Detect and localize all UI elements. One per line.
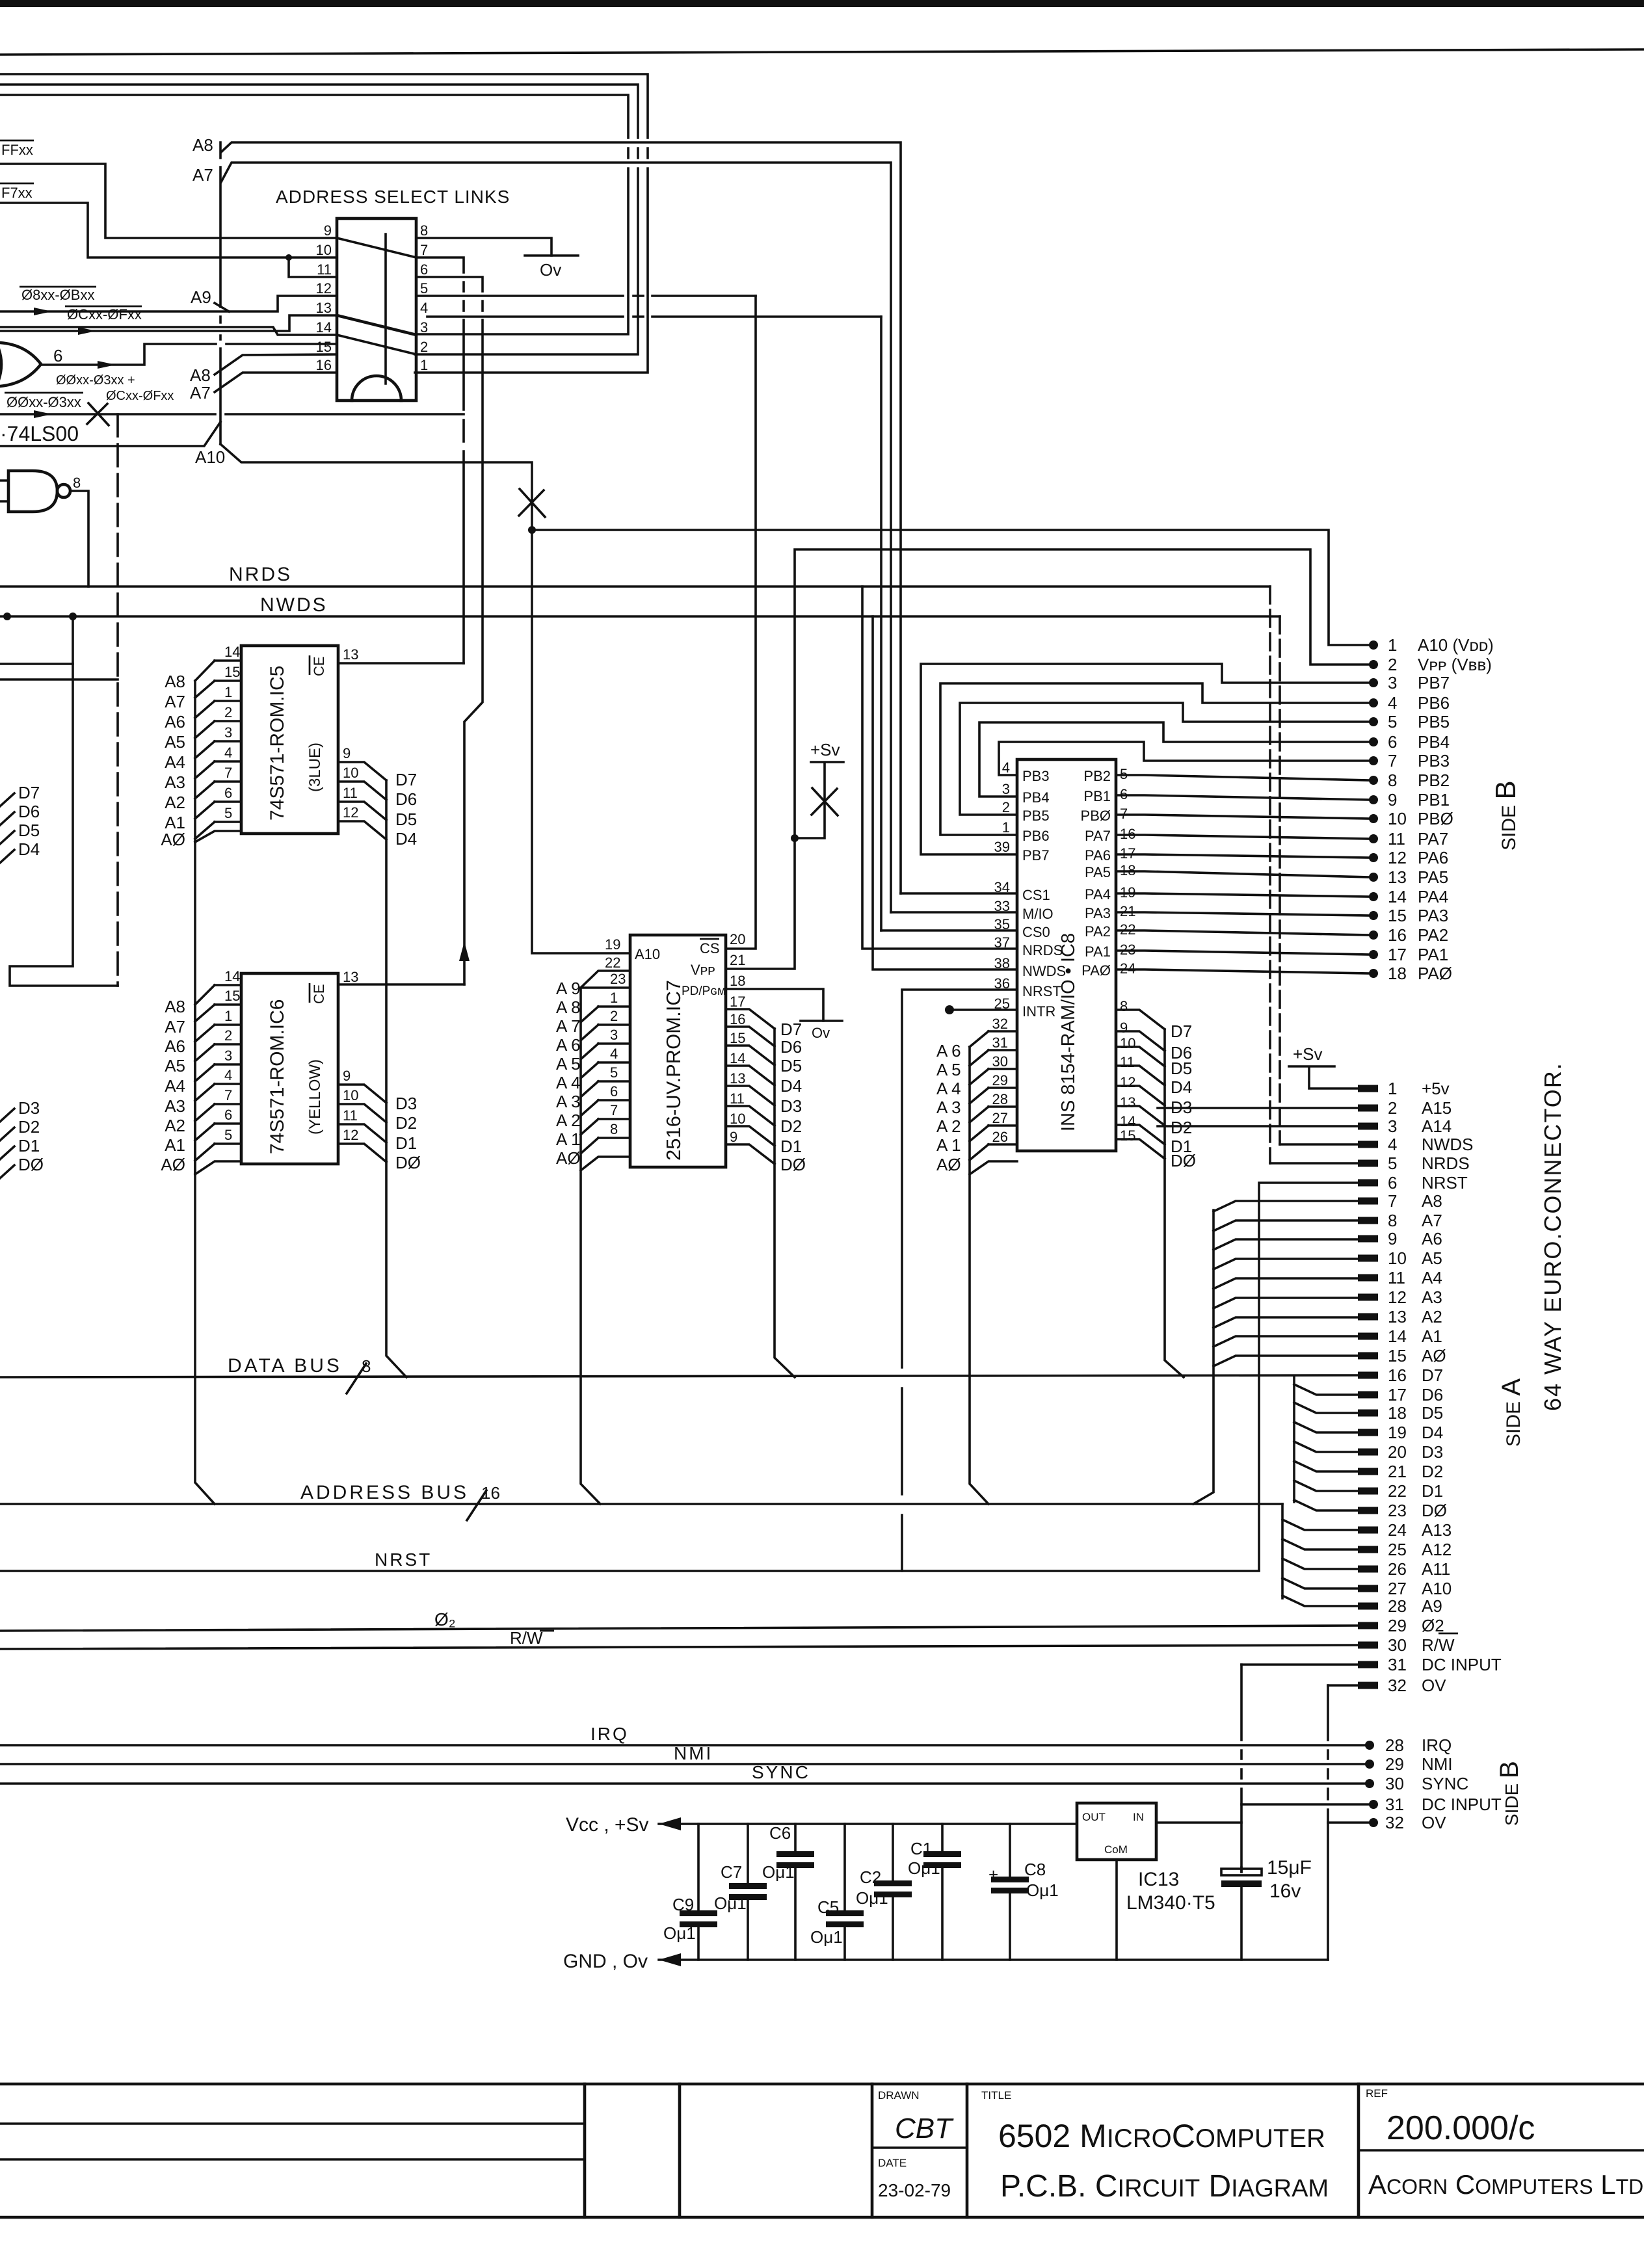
svg-text:3: 3 <box>1388 1116 1397 1136</box>
svg-text:Oμ1: Oμ1 <box>663 1923 696 1943</box>
wire IC5 pin7 diag <box>195 782 215 798</box>
svg-text:FFxx: FFxx <box>1 142 33 158</box>
svg-text:A 2: A 2 <box>556 1111 581 1130</box>
capacitor C5 <box>843 1824 846 1960</box>
svg-text:A10: A10 <box>1422 1579 1452 1598</box>
pin NAND inputs <box>0 481 8 501</box>
wire pin14 feed from left <box>0 327 337 335</box>
wire IC8 pin27 diag <box>970 1126 988 1141</box>
svg-text:22: 22 <box>605 955 620 971</box>
svg-text:D7: D7 <box>780 1020 802 1039</box>
svg-text:TITLE: TITLE <box>981 2089 1011 2102</box>
svg-text:16: 16 <box>730 1011 745 1027</box>
pin A19 D4 <box>1358 1429 1378 1436</box>
wire IC8 pin26 diag <box>970 1144 988 1160</box>
wire D3 fan to pin <box>1294 1442 1358 1452</box>
svg-text:13: 13 <box>1388 1307 1407 1326</box>
svg-text:16: 16 <box>316 357 332 373</box>
svg-text:1: 1 <box>224 1008 232 1024</box>
svg-text:DC INPUT: DC INPUT <box>1422 1795 1502 1814</box>
wire A12 fan to pin <box>1282 1539 1358 1549</box>
svg-text:·74LS00: ·74LS00 <box>0 422 79 445</box>
svg-text:Vᴘᴘ (Vʙʙ): Vᴘᴘ (Vʙʙ) <box>1418 655 1492 674</box>
pin A5 NRDS <box>1358 1160 1378 1167</box>
svg-text:D1: D1 <box>1422 1481 1443 1501</box>
svg-text:30: 30 <box>1388 1635 1407 1655</box>
svg-text:Vᴘᴘ: Vᴘᴘ <box>691 962 715 978</box>
capacitor C6 <box>794 1824 797 1960</box>
svg-text:DØ: DØ <box>780 1155 806 1174</box>
svg-text:18: 18 <box>1388 964 1407 983</box>
svg-text:INTR: INTR <box>1022 1003 1055 1020</box>
svg-text:D5: D5 <box>1171 1059 1192 1078</box>
svg-text:C2: C2 <box>860 1867 881 1887</box>
wire left stub b <box>0 678 118 681</box>
pin B6 PB4 <box>1369 737 1378 746</box>
svg-text:NWDS: NWDS <box>1422 1135 1473 1154</box>
svg-text:8: 8 <box>420 222 428 239</box>
svg-text:IRQ: IRQ <box>1422 1735 1452 1755</box>
svg-text:12: 12 <box>1388 848 1407 867</box>
link 13-3 <box>337 315 416 335</box>
wire A8 fan to pin <box>1213 1201 1358 1211</box>
wire IC5 pin5 diag <box>195 822 215 839</box>
wire IC8 PA2 to side B <box>1116 930 1370 935</box>
svg-text:PAØ: PAØ <box>1081 962 1111 979</box>
border drawn/date divider <box>872 2146 967 2149</box>
svg-text:3: 3 <box>1002 781 1010 797</box>
svg-text:9: 9 <box>730 1129 737 1145</box>
pin A14 A1 <box>1358 1333 1378 1340</box>
IC IC13 LM340-T5 body <box>1077 1803 1156 1860</box>
svg-text:14: 14 <box>1388 1326 1407 1346</box>
svg-text:2: 2 <box>1002 799 1010 815</box>
svg-text:D5: D5 <box>1422 1403 1443 1423</box>
svg-text:26: 26 <box>992 1129 1008 1145</box>
wire IC7 pin1 diag <box>581 1007 598 1022</box>
wire IC5 pin4 diag <box>195 761 215 778</box>
svg-text:DATE: DATE <box>878 2157 907 2169</box>
ground 0V (IC7) <box>801 1020 842 1022</box>
capacitor C9 <box>697 1824 700 1960</box>
svg-text:PA6: PA6 <box>1085 847 1111 864</box>
svg-text:M/IO: M/IO <box>1022 906 1054 922</box>
svg-text:13: 13 <box>343 969 358 985</box>
svg-text:ADDRESS SELECT LINKS: ADDRESS SELECT LINKS <box>276 187 510 207</box>
svg-text:2516-UV.PROM.IC7: 2516-UV.PROM.IC7 <box>662 980 685 1161</box>
wire IC8 PB4 to side B <box>979 722 1370 797</box>
wire IC6 pin14 diag <box>195 985 215 1005</box>
border inner line 2 <box>0 2158 585 2161</box>
svg-text:28: 28 <box>1388 1596 1407 1616</box>
svg-text:5: 5 <box>420 280 428 297</box>
border title block top <box>0 2083 1644 2086</box>
svg-text:PBØ: PBØ <box>1418 809 1453 828</box>
node D2 left-edge stub <box>0 1127 14 1141</box>
wire IC6 pin6 diag <box>195 1124 215 1141</box>
border inner line 1 <box>0 2122 585 2125</box>
wire A1 fan to pin <box>1213 1336 1358 1347</box>
svg-text:D7: D7 <box>395 770 417 789</box>
svg-text:2: 2 <box>1388 1098 1397 1118</box>
pin B5 PB5 <box>1369 717 1378 726</box>
svg-text:200.000/c: 200.000/c <box>1386 2109 1535 2147</box>
wire phi2 line <box>0 1626 1358 1631</box>
wire IC8 pin28 diag <box>970 1107 988 1122</box>
wire IC5 pin1 diag <box>195 701 215 718</box>
wire ADDRESS BUS <box>0 1503 1282 1505</box>
svg-text:R/W: R/W <box>1422 1635 1455 1655</box>
pin B14 PA4 <box>1369 892 1378 901</box>
svg-text:PB7: PB7 <box>1418 673 1450 692</box>
svg-text:10: 10 <box>343 1087 358 1103</box>
wire M-IO select line <box>221 163 891 912</box>
wire IC5 pin6 diag <box>195 802 215 819</box>
svg-text:29: 29 <box>1388 1616 1407 1635</box>
wire IC6 A0 entry <box>195 1161 241 1174</box>
svg-text:IC13: IC13 <box>1138 1869 1179 1890</box>
svg-text:7: 7 <box>224 1087 232 1103</box>
svg-text:PA5: PA5 <box>1085 864 1111 880</box>
svg-text:A2: A2 <box>1422 1307 1442 1326</box>
svg-text:15: 15 <box>730 1030 745 1046</box>
link 9-7 <box>337 238 416 257</box>
wire IC8 PA7 to side B <box>1116 835 1370 839</box>
svg-text:PB2: PB2 <box>1418 771 1450 790</box>
svg-text:11: 11 <box>1388 829 1405 849</box>
pin B1 A10 (Vᴅᴅ) <box>1369 640 1378 650</box>
wire IRQ line <box>0 1744 1370 1747</box>
svg-text:14: 14 <box>730 1050 745 1066</box>
wire IC8 A0 entry <box>970 1161 1017 1174</box>
svg-text:Oμ1: Oμ1 <box>762 1862 795 1882</box>
svg-text:9: 9 <box>1120 1020 1128 1036</box>
wire NWDS <box>0 615 1280 618</box>
pin A11 A4 <box>1358 1274 1378 1282</box>
svg-text:22: 22 <box>1388 1481 1407 1501</box>
svg-text:Ø8xx-ØBxx: Ø8xx-ØBxx <box>21 287 94 303</box>
node bus width 8 <box>347 1364 366 1393</box>
wire GND rail <box>659 1958 1328 1961</box>
pin B11 PA7 <box>1369 834 1378 843</box>
wire CS1 stub <box>901 892 1017 895</box>
svg-text:AØ: AØ <box>556 1148 581 1168</box>
svg-text:13: 13 <box>1120 1094 1135 1111</box>
pin A2 A15 <box>1358 1105 1378 1112</box>
wire IC8 PA4 to side B <box>1116 893 1370 897</box>
wire IN to DC input <box>1156 1821 1241 1824</box>
node D1 left-edge stub <box>0 1146 14 1159</box>
svg-text:PAØ: PAØ <box>1418 964 1452 983</box>
wire IC6 pin2 diag <box>195 1044 215 1061</box>
svg-text:23-02-79: 23-02-79 <box>878 2180 951 2200</box>
svg-text:74S571-ROM.IC5: 74S571-ROM.IC5 <box>267 666 288 821</box>
svg-text:PA7: PA7 <box>1085 828 1111 844</box>
svg-text:A 9: A 9 <box>556 979 581 998</box>
svg-text:9: 9 <box>343 1068 351 1084</box>
svg-text:74S571-ROM.IC6: 74S571-ROM.IC6 <box>267 999 288 1154</box>
pin A8 A7 <box>1358 1217 1378 1224</box>
svg-text:F7xx: F7xx <box>1 185 33 201</box>
node junction A10/side-B <box>528 526 536 534</box>
svg-text:D3: D3 <box>18 1098 40 1118</box>
wire IC7 pin22 <box>581 971 630 988</box>
svg-text:D3: D3 <box>1422 1442 1443 1462</box>
svg-text:6: 6 <box>224 785 232 801</box>
wire select vertical 339 <box>219 142 222 444</box>
svg-text:A 4: A 4 <box>936 1079 961 1098</box>
svg-text:4: 4 <box>610 1046 618 1062</box>
wire IC8 PBØ to side B <box>1116 815 1370 819</box>
wire lower select line <box>0 422 220 446</box>
svg-text:D2: D2 <box>780 1116 802 1136</box>
connector J1 inner bar <box>384 234 387 384</box>
node R/W overline <box>1438 1633 1458 1635</box>
svg-text:A 5: A 5 <box>936 1060 961 1079</box>
svg-text:DC INPUT: DC INPUT <box>1422 1655 1502 1674</box>
wire IC7 pin8 diag <box>581 1138 598 1154</box>
svg-text:15: 15 <box>1388 1346 1407 1365</box>
node X mark (cut) <box>87 403 109 425</box>
wire links pin6 to IC6 CE <box>416 277 483 984</box>
wire D6 fan to pin <box>1294 1384 1358 1395</box>
svg-text:A7: A7 <box>192 165 213 185</box>
svg-text:A8: A8 <box>190 365 211 385</box>
wire OV A32 feed <box>1328 1684 1358 1687</box>
svg-text:NRST: NRST <box>1422 1173 1468 1193</box>
svg-text:18: 18 <box>1388 1403 1407 1423</box>
wire IC8 PB6 to side B <box>940 683 1370 835</box>
svg-text:A1: A1 <box>1422 1326 1442 1346</box>
border v5 <box>1357 2084 1360 2217</box>
svg-text:+Sv: +Sv <box>810 740 840 759</box>
svg-text:17: 17 <box>1388 945 1407 964</box>
svg-text:31: 31 <box>1388 1655 1407 1674</box>
wire IC8 PB1 to side B <box>1116 795 1370 800</box>
svg-text:AØ: AØ <box>161 830 185 849</box>
node D3 left-edge stub <box>0 1109 14 1122</box>
wire D0 fan to pin <box>1294 1500 1358 1510</box>
svg-text:DØ: DØ <box>1422 1501 1447 1520</box>
svg-text:4: 4 <box>224 1067 232 1083</box>
wire A7 feed to pin16 <box>215 373 337 392</box>
wire IC8 pin31 diag <box>970 1050 988 1066</box>
wire A4 fan to pin <box>1213 1278 1358 1289</box>
pin A3 A14 <box>1358 1123 1378 1130</box>
border v4 <box>966 2084 969 2217</box>
svg-text:15μF: 15μF <box>1267 1857 1312 1879</box>
svg-text:A1: A1 <box>165 1135 185 1155</box>
svg-text:1: 1 <box>224 684 232 700</box>
svg-text:D4: D4 <box>1171 1077 1192 1097</box>
svg-text:12: 12 <box>316 280 332 297</box>
node DØ left-edge stub <box>0 1165 14 1178</box>
wire IC8 PB2 to side B <box>1116 775 1370 780</box>
svg-text:REF: REF <box>1366 2087 1388 2100</box>
svg-text:6: 6 <box>420 261 428 278</box>
wire to links pin 11 <box>289 257 337 277</box>
svg-text:7: 7 <box>1388 1191 1397 1211</box>
svg-text:3: 3 <box>224 724 232 741</box>
svg-text:NRDS: NRDS <box>229 564 292 585</box>
wire A13 fan to pin <box>1282 1520 1358 1530</box>
wire A11 fan to pin <box>1282 1559 1358 1569</box>
svg-text:AØ: AØ <box>936 1155 961 1174</box>
svg-text:DRAWN: DRAWN <box>878 2089 920 2102</box>
svg-text:PBØ: PBØ <box>1081 808 1111 824</box>
svg-text:4: 4 <box>224 745 232 761</box>
ground 0V (links) <box>525 254 578 257</box>
svg-text:Ov: Ov <box>540 260 561 280</box>
svg-text:C9: C9 <box>672 1895 694 1914</box>
svg-text:(3LUE): (3LUE) <box>306 743 324 792</box>
wire COM to GND <box>1115 1860 1118 1960</box>
svg-text:8: 8 <box>362 1356 371 1376</box>
pin A16 D7 <box>1358 1372 1378 1379</box>
svg-text:IRQ: IRQ <box>590 1724 629 1744</box>
node bus width 16 <box>467 1490 486 1520</box>
svg-text:12: 12 <box>343 1127 358 1143</box>
wire IC8 PB5 to side B <box>960 703 1370 815</box>
node junction Vpp/+5v <box>791 834 799 842</box>
pin A31 DC INPUT <box>1358 1661 1378 1668</box>
svg-text:29: 29 <box>1385 1754 1404 1774</box>
svg-text:12: 12 <box>1388 1287 1407 1307</box>
pin A27 A10 <box>1358 1585 1378 1592</box>
svg-text:PB3: PB3 <box>1022 768 1050 784</box>
pin B18 PAØ <box>1369 969 1378 978</box>
pin A18 D5 <box>1358 1410 1378 1417</box>
svg-text:CS: CS <box>700 940 720 956</box>
svg-text:C6: C6 <box>769 1823 791 1843</box>
svg-text:16: 16 <box>481 1483 500 1503</box>
wire CS1 select line <box>221 142 901 893</box>
svg-text:A13: A13 <box>1422 1520 1452 1540</box>
wire data bus vertical (ROMs) <box>386 780 406 1377</box>
wire NWDS branch to IC8 <box>873 616 1017 969</box>
pin A23 DØ <box>1358 1507 1378 1514</box>
svg-text:D4: D4 <box>1422 1423 1443 1442</box>
pin A12 A3 <box>1358 1294 1378 1301</box>
wire IC8 PAØ to side B <box>1116 969 1370 973</box>
wire IC6 pin4 diag <box>195 1084 215 1101</box>
wire IC5 pin15 diag <box>195 681 215 698</box>
svg-text:1: 1 <box>610 990 618 1006</box>
wire IC6 pin5 diag <box>195 1144 215 1161</box>
svg-text:D2: D2 <box>18 1117 40 1137</box>
svg-text:A14: A14 <box>1422 1116 1452 1136</box>
svg-text:D5: D5 <box>780 1056 802 1075</box>
svg-text:8: 8 <box>1388 771 1397 790</box>
svg-text:16v: 16v <box>1269 1880 1301 1902</box>
svg-text:A7: A7 <box>165 692 185 711</box>
svg-text:A8: A8 <box>192 135 213 155</box>
svg-text:A 6: A 6 <box>556 1035 581 1055</box>
svg-text:PB4: PB4 <box>1418 732 1450 752</box>
svg-text:Vᴄᴄ , +Sv: Vᴄᴄ , +Sv <box>566 1814 649 1836</box>
svg-text:9: 9 <box>343 745 351 761</box>
svg-text:A 1: A 1 <box>556 1129 581 1149</box>
svg-text:OV: OV <box>1422 1676 1446 1695</box>
wire A14 feed <box>1158 1125 1358 1127</box>
svg-text:PB3: PB3 <box>1418 751 1450 771</box>
svg-text:CE: CE <box>311 984 327 1004</box>
svg-text:OUT: OUT <box>1082 1811 1106 1823</box>
node D6 left-edge stub <box>0 812 14 825</box>
svg-text:21: 21 <box>730 952 745 968</box>
svg-text:9: 9 <box>1388 790 1397 810</box>
svg-text:A 3: A 3 <box>556 1092 581 1111</box>
svg-text:7: 7 <box>610 1102 618 1118</box>
svg-text:7: 7 <box>420 242 428 258</box>
svg-text:CE: CE <box>311 656 327 676</box>
svg-text:A6: A6 <box>165 712 185 732</box>
svg-text:64 WAY EURO.CONNECTOR.: 64 WAY EURO.CONNECTOR. <box>1539 1062 1566 1411</box>
svg-text:11: 11 <box>1388 1268 1405 1287</box>
svg-text:3: 3 <box>420 319 428 336</box>
svg-text:2: 2 <box>224 1027 232 1044</box>
wire IC8 PB7 to side B <box>921 664 1370 854</box>
border ref divider <box>1359 2149 1644 2152</box>
svg-text:4: 4 <box>420 300 428 316</box>
svg-text:D4: D4 <box>780 1076 802 1096</box>
svg-text:D5: D5 <box>395 810 417 829</box>
svg-text:PA1: PA1 <box>1085 943 1111 960</box>
svg-text:5: 5 <box>224 1127 232 1143</box>
wire NRST to pin A6 <box>1259 1183 1358 1570</box>
wire NMI line <box>0 1763 1370 1765</box>
pin A25 A12 <box>1358 1546 1378 1553</box>
svg-text:Ø₂: Ø₂ <box>434 1609 456 1629</box>
svg-text:24: 24 <box>1388 1520 1407 1540</box>
svg-text:16: 16 <box>1388 1365 1407 1385</box>
wire 0Cxx-0Fxx to links pin 13 <box>0 315 337 331</box>
wire IC8 PA6 to side B <box>1116 854 1370 858</box>
pin A10 A5 <box>1358 1255 1378 1262</box>
svg-text:19: 19 <box>605 936 620 953</box>
wire data fan vertical <box>1293 1377 1295 1502</box>
wire IC8 pin29 diag <box>970 1088 988 1103</box>
svg-text:1: 1 <box>1388 1079 1397 1098</box>
svg-text:PA6: PA6 <box>1418 848 1448 867</box>
svg-text:CᴏM: CᴏM <box>1104 1843 1128 1856</box>
svg-text:Oμ1: Oμ1 <box>908 1858 940 1878</box>
wire IC5 address staircase <box>194 681 196 842</box>
wire IC8 addr staircase <box>970 1047 988 1504</box>
wire IC7 A staircase <box>581 988 600 1504</box>
svg-text:DØ: DØ <box>1171 1151 1196 1170</box>
svg-text:A2: A2 <box>165 1116 185 1135</box>
svg-text:C8: C8 <box>1024 1860 1046 1879</box>
svg-text:PA7: PA7 <box>1418 829 1448 849</box>
wire A8 feed to pin15 <box>215 354 337 375</box>
wire A3 fan to pin <box>1213 1298 1358 1308</box>
svg-text:4: 4 <box>1002 759 1010 776</box>
svg-text:R/W: R/W <box>510 1628 543 1648</box>
pin A6 NRST <box>1358 1180 1378 1187</box>
wire A15 feed <box>1158 1107 1358 1109</box>
svg-text:20: 20 <box>1388 1442 1407 1462</box>
svg-text:D3: D3 <box>395 1094 417 1113</box>
svg-text:23: 23 <box>1388 1501 1407 1520</box>
capacitor C1 <box>941 1824 944 1960</box>
svg-text:A2: A2 <box>165 793 185 812</box>
svg-text:12: 12 <box>1120 1074 1135 1090</box>
svg-text:DØ: DØ <box>18 1155 44 1174</box>
svg-text:25: 25 <box>1388 1540 1407 1559</box>
capacitor C8 <box>1009 1824 1011 1960</box>
svg-text:A10 (Vᴅᴅ): A10 (Vᴅᴅ) <box>1418 635 1494 655</box>
